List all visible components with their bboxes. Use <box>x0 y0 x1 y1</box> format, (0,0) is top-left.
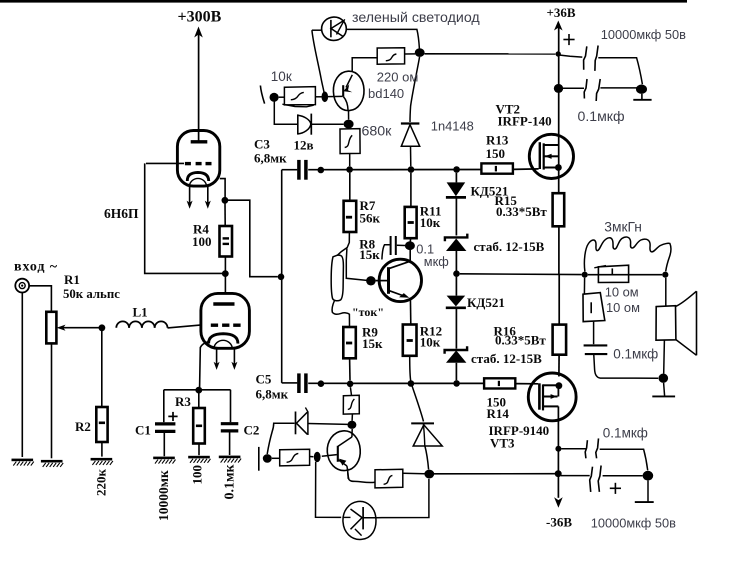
svg-text:680к: 680к <box>362 124 393 140</box>
svg-text:стаб. 12-15В: стаб. 12-15В <box>474 239 545 254</box>
svg-text:мкф: мкф <box>424 254 449 269</box>
svg-text:3мкГн: 3мкГн <box>604 219 642 234</box>
svg-text:-36В: -36В <box>546 515 572 530</box>
svg-text:VT3: VT3 <box>490 436 515 451</box>
svg-text:С3: С3 <box>254 137 270 152</box>
svg-text:220к: 220к <box>94 469 109 497</box>
svg-text:КД521: КД521 <box>467 295 505 310</box>
svg-text:С5: С5 <box>256 372 272 387</box>
svg-text:C2: C2 <box>244 422 260 437</box>
svg-text:50к альпс: 50к альпс <box>63 287 120 301</box>
svg-text:6Н6П: 6Н6П <box>104 206 139 221</box>
svg-text:0.1мкф: 0.1мкф <box>613 346 658 361</box>
svg-text:10к: 10к <box>271 69 292 84</box>
svg-text:10000мкф 50в: 10000мкф 50в <box>601 27 686 42</box>
svg-text:0.1мк: 0.1мк <box>223 463 238 499</box>
svg-text:стаб. 12-15В: стаб. 12-15В <box>471 351 542 366</box>
svg-text:вход ~: вход ~ <box>14 260 58 275</box>
svg-text:L1: L1 <box>133 305 148 320</box>
svg-text:10000мк: 10000мк <box>156 470 171 521</box>
svg-text:100: 100 <box>190 465 205 485</box>
svg-text:6,8мк: 6,8мк <box>256 387 289 402</box>
svg-text:220 ом: 220 ом <box>377 70 419 85</box>
svg-text:0.33*5Вт: 0.33*5Вт <box>495 332 546 347</box>
svg-text:R14: R14 <box>487 406 510 421</box>
svg-text:10к: 10к <box>420 215 441 230</box>
svg-text:6,8мк: 6,8мк <box>254 151 287 166</box>
svg-text:15к: 15к <box>359 247 380 262</box>
svg-text:0.1мкф: 0.1мкф <box>603 426 648 441</box>
svg-text:12в: 12в <box>294 138 314 153</box>
svg-text:56к: 56к <box>360 211 381 226</box>
svg-text:10к: 10к <box>420 335 441 350</box>
svg-text:+36В: +36В <box>547 5 576 20</box>
svg-text:0.1мкф: 0.1мкф <box>578 108 625 124</box>
svg-text:10 ом: 10 ом <box>605 285 639 300</box>
svg-text:R3: R3 <box>175 394 191 409</box>
svg-text:10 ом: 10 ом <box>606 300 640 315</box>
svg-text:0.33*5Вт: 0.33*5Вт <box>496 204 547 219</box>
svg-text:150: 150 <box>486 146 506 161</box>
svg-text:R2: R2 <box>75 419 91 434</box>
svg-text:IRFP-140: IRFP-140 <box>498 113 552 128</box>
svg-text:зеленый светодиод: зеленый светодиод <box>352 10 480 26</box>
svg-text:15к: 15к <box>362 336 383 351</box>
svg-text:+300В: +300В <box>178 9 222 26</box>
svg-text:bd140: bd140 <box>368 86 404 101</box>
svg-text:R1: R1 <box>64 272 80 287</box>
svg-text:10000мкф 50в: 10000мкф 50в <box>591 516 676 531</box>
svg-text:C1: C1 <box>135 422 151 437</box>
svg-text:100: 100 <box>192 234 212 249</box>
svg-text:"ток": "ток" <box>352 305 384 319</box>
svg-text:1n4148: 1n4148 <box>431 119 474 134</box>
